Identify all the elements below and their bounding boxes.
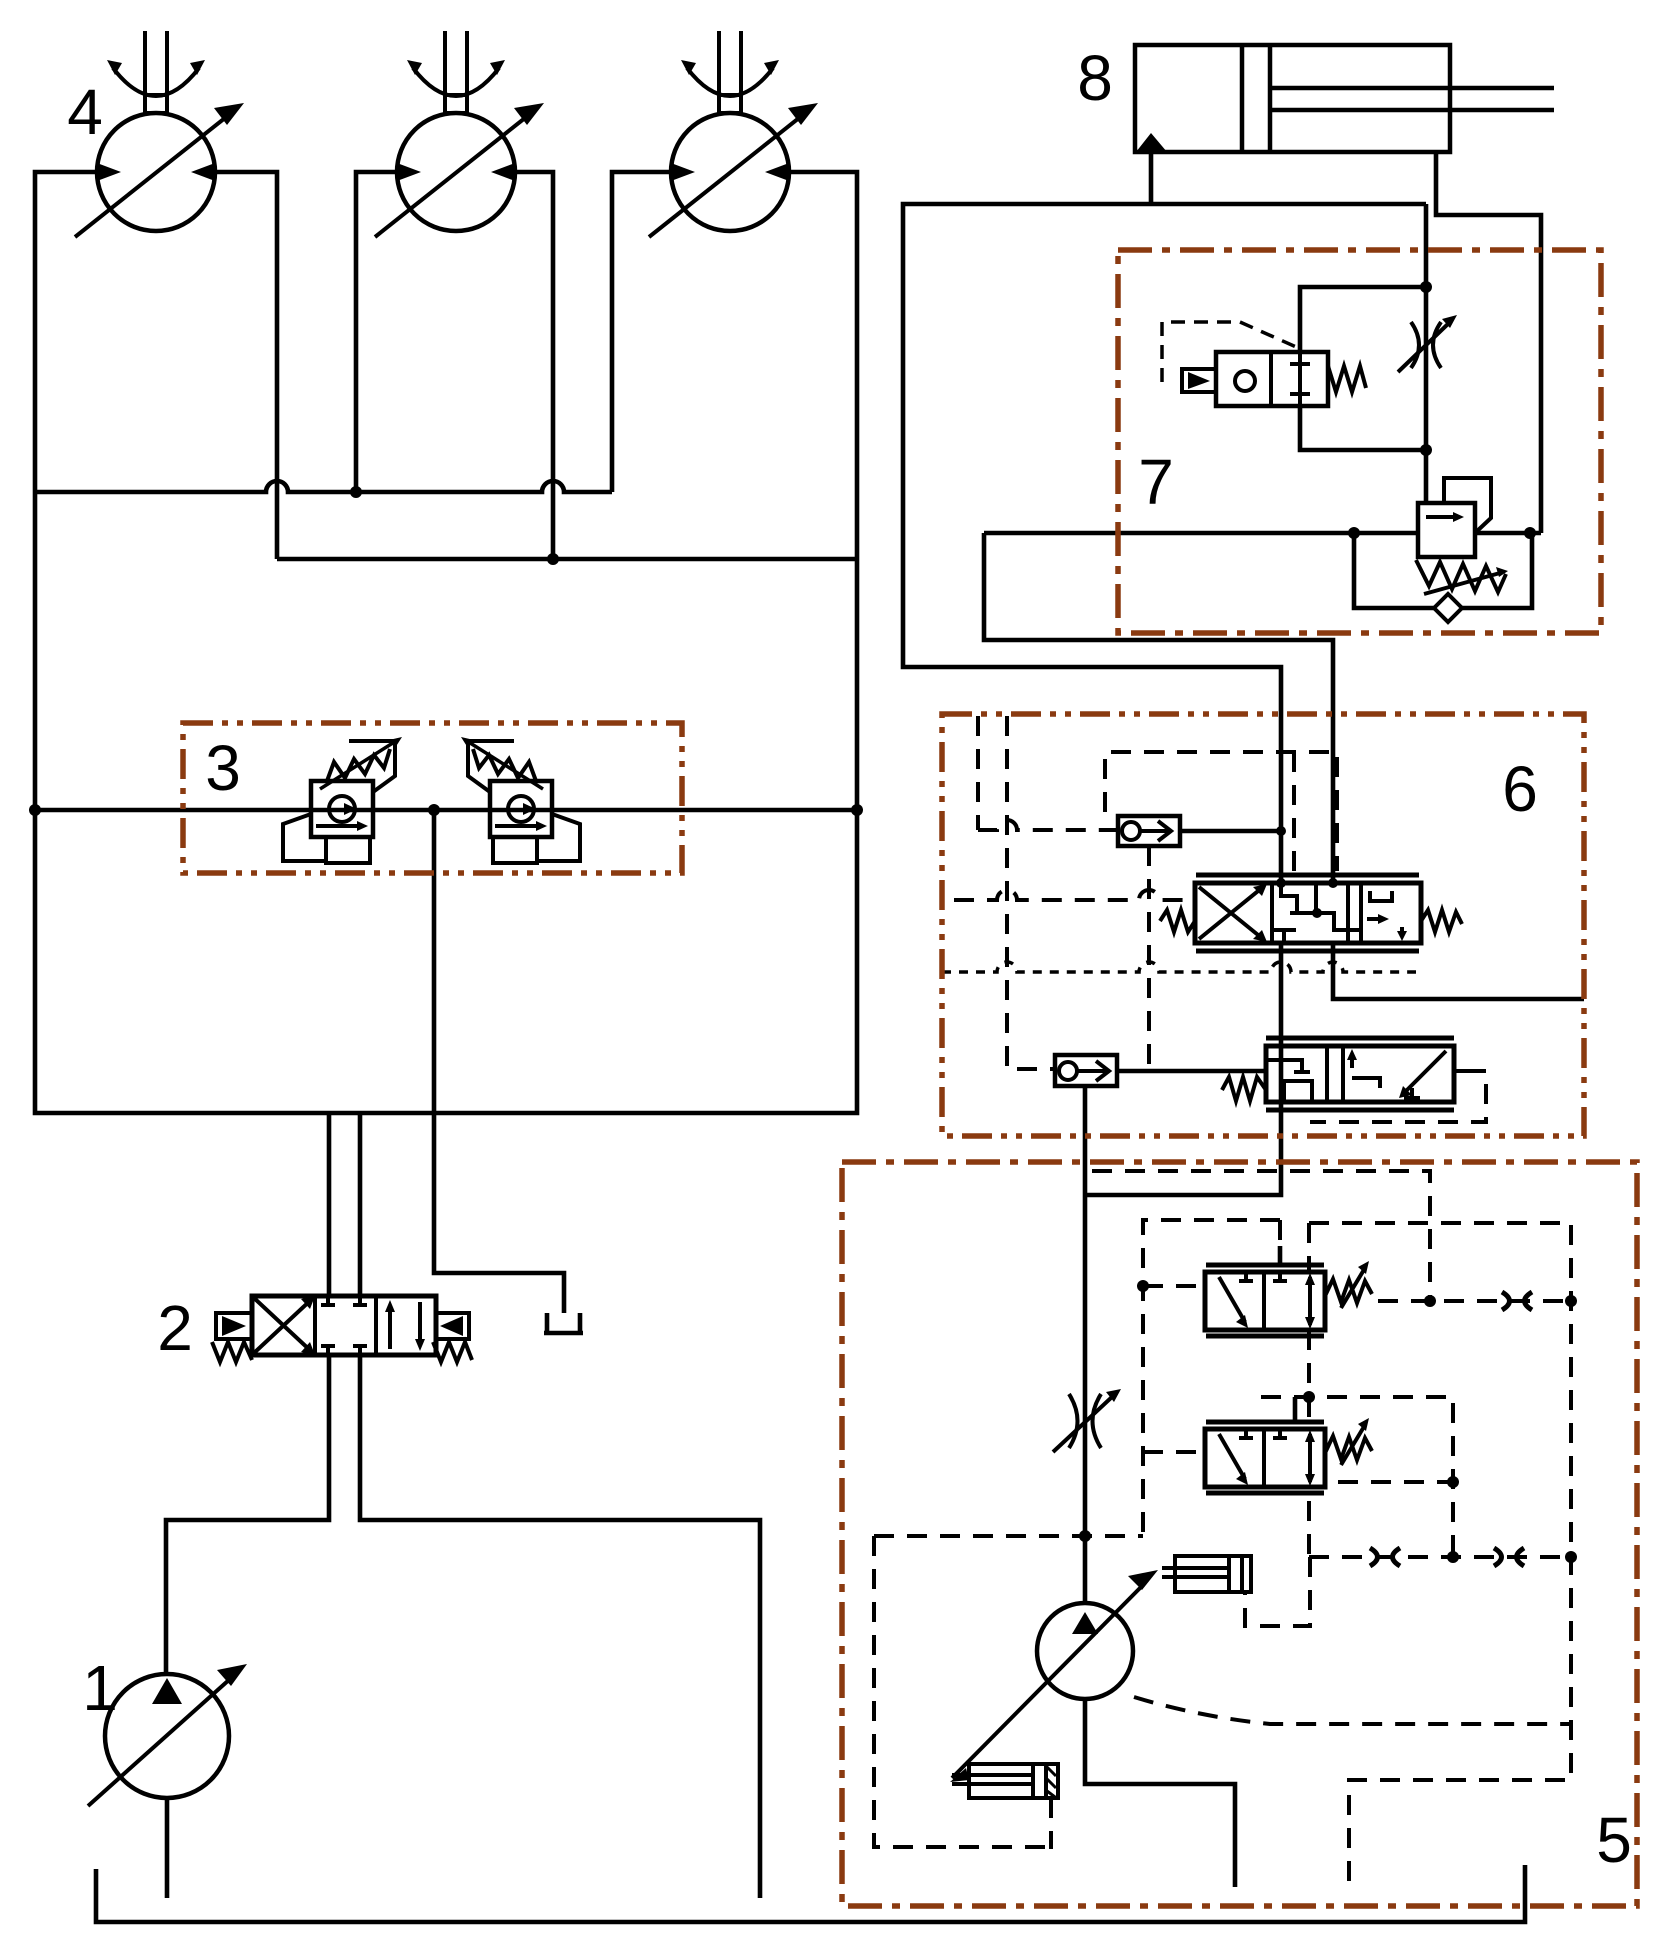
svg-text:4: 4	[67, 76, 103, 148]
svg-text:8: 8	[1077, 42, 1113, 114]
svg-text:7: 7	[1138, 446, 1174, 518]
svg-text:5: 5	[1596, 1804, 1632, 1876]
svg-text:1: 1	[82, 1652, 118, 1724]
svg-text:3: 3	[205, 732, 241, 804]
svg-text:2: 2	[157, 1292, 193, 1364]
svg-text:6: 6	[1502, 753, 1538, 825]
